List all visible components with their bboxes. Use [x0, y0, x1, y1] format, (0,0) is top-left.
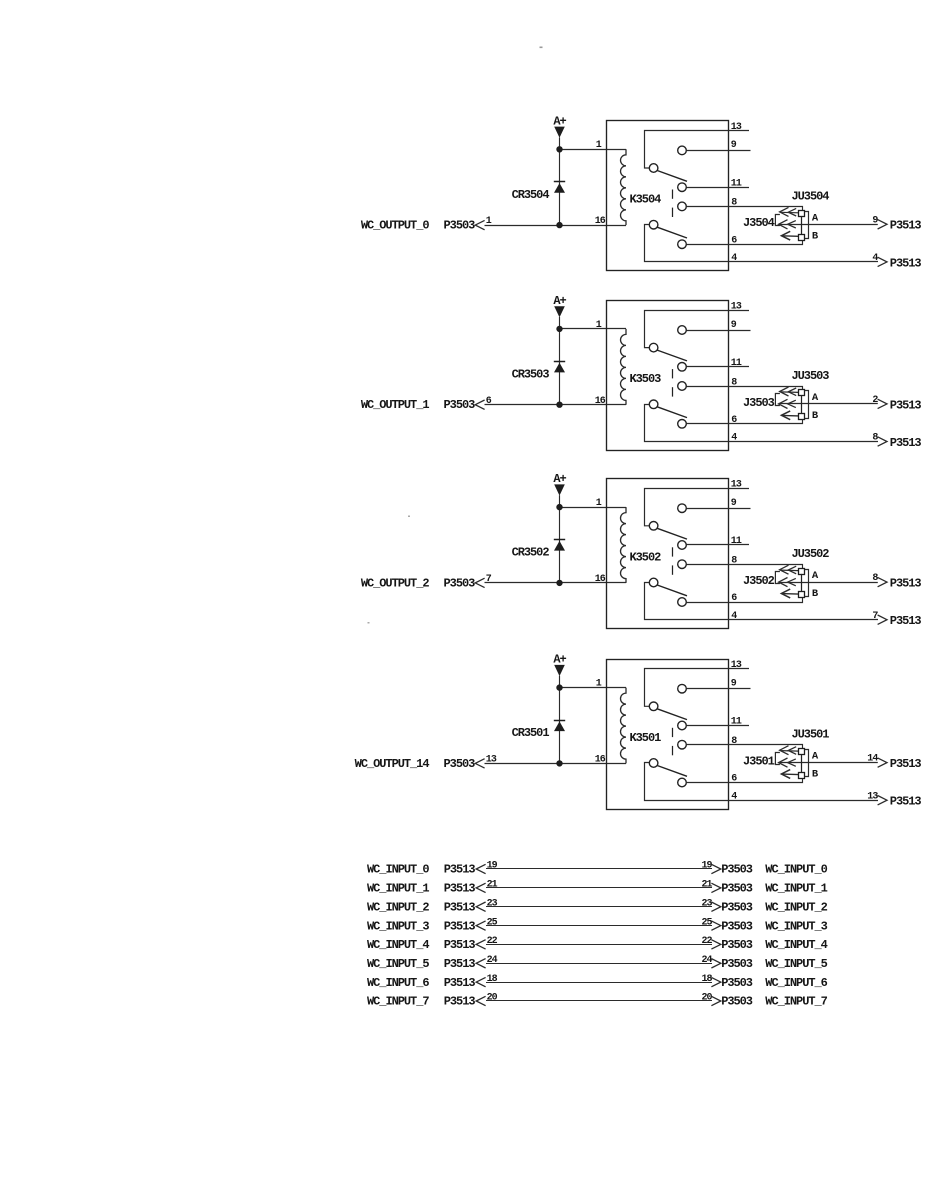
connector arrow P3503 pin 1 — [475, 220, 484, 229]
power arrow A+ — [554, 127, 565, 138]
connector J3504 bracket — [775, 215, 780, 226]
svg-text:A: A — [812, 570, 819, 582]
svg-text:K3501: K3501 — [630, 731, 662, 745]
svg-text:K3502: K3502 — [630, 550, 662, 564]
wire WC_OUTPUT_1 to coil pin 16 — [485, 404, 627, 406]
connector arrow P3513 pin 14 — [878, 758, 887, 767]
contact pin 6 — [678, 420, 687, 429]
wire contact pin 4 bracket — [645, 763, 879, 801]
wire A+ vertical — [559, 676, 561, 764]
connector arrow P3513 pin 7 — [878, 615, 887, 624]
contact pin 8 — [678, 740, 687, 749]
svg-text:P3513: P3513 — [890, 577, 922, 591]
svg-text:B: B — [812, 230, 819, 242]
wire pin 6 to jumper B — [686, 240, 802, 245]
svg-text:P3503: P3503 — [721, 976, 753, 990]
svg-text:WC_OUTPUT_0: WC_OUTPUT_0 — [361, 219, 430, 233]
svg-text:24: 24 — [701, 955, 712, 966]
svg-text:J3504: J3504 — [743, 216, 775, 230]
diode CR3503 — [554, 361, 565, 363]
svg-text:JU3501: JU3501 — [792, 728, 830, 742]
junction A+ / pin 1 — [557, 326, 562, 331]
wire A+ vertical — [559, 317, 561, 405]
svg-text:9: 9 — [731, 320, 737, 331]
diode CR3501 — [554, 720, 565, 722]
wire A+ vertical — [559, 137, 561, 225]
relay K3501 box — [607, 660, 729, 810]
wire WC_INPUT_2 — [486, 906, 712, 908]
connector arrow P3503 pin 6 — [475, 400, 484, 409]
svg-text:22: 22 — [487, 936, 498, 947]
svg-text:9: 9 — [731, 498, 737, 509]
contact pin 8 — [678, 202, 687, 211]
svg-text:7: 7 — [486, 574, 492, 585]
svg-text:1: 1 — [596, 320, 602, 331]
diode CR3504 — [554, 181, 565, 183]
contact pin 8 — [678, 560, 687, 569]
wire WC_INPUT_1 — [486, 887, 712, 889]
svg-text:13: 13 — [867, 791, 878, 802]
relay K3503 coil — [621, 329, 627, 405]
wire coil pin 1 (A+ node to K3504) — [560, 149, 627, 151]
svg-text:CR3502: CR3502 — [512, 546, 550, 560]
svg-text:JU3504: JU3504 — [792, 189, 830, 203]
svg-text:21: 21 — [487, 880, 498, 891]
speck — [368, 622, 370, 624]
svg-text:9: 9 — [731, 679, 737, 690]
svg-text:P3513: P3513 — [890, 614, 922, 628]
svg-text:25: 25 — [701, 917, 712, 928]
connector arrow P3513 pin 23 — [476, 902, 485, 911]
svg-text:P3503: P3503 — [721, 882, 753, 896]
wire WC_OUTPUT_2 to coil pin 16 — [485, 582, 627, 584]
svg-text:P3513: P3513 — [444, 863, 476, 877]
svg-text:A+: A+ — [553, 114, 566, 128]
switch arm pole 1 — [657, 171, 687, 182]
svg-text:P3503: P3503 — [444, 398, 476, 412]
jumper shunt A-B — [805, 750, 809, 777]
svg-text:2: 2 — [872, 395, 878, 406]
svg-text:P3503: P3503 — [721, 919, 753, 933]
svg-text:WC_INPUT_7: WC_INPUT_7 — [765, 995, 827, 1009]
contact pin 9 (NC) — [678, 146, 687, 155]
contact pin 8 — [678, 382, 687, 391]
svg-text:6: 6 — [486, 396, 492, 407]
svg-text:WC_INPUT_1: WC_INPUT_1 — [367, 882, 429, 896]
connector arrow P3503 pin 21 — [711, 883, 720, 892]
svg-text:A+: A+ — [553, 653, 566, 667]
wire WC_INPUT_0 — [486, 868, 712, 870]
svg-text:P3513: P3513 — [890, 398, 922, 412]
svg-text:16: 16 — [595, 396, 606, 407]
power arrow A+ — [554, 306, 565, 317]
svg-text:P3503: P3503 — [721, 957, 753, 971]
connector arrow P3503 pin 18 — [711, 977, 720, 986]
svg-text:16: 16 — [595, 755, 606, 766]
svg-text:13: 13 — [731, 480, 742, 491]
svg-text:A: A — [812, 212, 819, 224]
wire contact pin 13 bracket — [645, 131, 750, 169]
svg-text:25: 25 — [487, 917, 498, 928]
wire contact pin 13 bracket — [645, 489, 750, 526]
svg-text:9: 9 — [731, 140, 737, 151]
relay K3504 box — [607, 121, 729, 271]
connector arrow P3513 pin 18 — [476, 977, 485, 986]
svg-text:18: 18 — [487, 974, 498, 985]
junction A+ / pin 1 — [557, 147, 562, 152]
mechanical link — [672, 547, 674, 556]
speck — [540, 47, 543, 49]
relay K3503 box — [607, 301, 729, 451]
svg-text:P3513: P3513 — [444, 919, 476, 933]
contact pin 9 (NC) — [678, 504, 687, 513]
connector arrow P3513 pin 19 — [476, 864, 485, 873]
junction diode / pin 16 — [557, 402, 562, 407]
svg-text:24: 24 — [487, 955, 498, 966]
switch arm pole 2 — [657, 585, 687, 596]
svg-text:22: 22 — [701, 936, 712, 947]
svg-text:WC_INPUT_3: WC_INPUT_3 — [367, 919, 429, 933]
connector arrow P3503 pin 25 — [711, 921, 720, 930]
svg-text:4: 4 — [872, 253, 878, 264]
wire coil pin 1 (A+ node to K3501) — [560, 687, 627, 689]
svg-text:P3503: P3503 — [444, 219, 476, 233]
svg-text:19: 19 — [487, 861, 498, 872]
svg-text:16: 16 — [595, 216, 606, 227]
svg-text:13: 13 — [731, 122, 742, 133]
contact pivot (pole 1) — [649, 164, 658, 173]
wire contact pin 4 bracket — [645, 405, 879, 442]
diode CR3502 — [554, 539, 565, 541]
svg-text:WC_OUTPUT_2: WC_OUTPUT_2 — [361, 576, 430, 590]
svg-text:A+: A+ — [553, 294, 566, 308]
svg-text:WC_INPUT_5: WC_INPUT_5 — [367, 957, 429, 971]
junction diode / pin 16 — [557, 761, 562, 766]
wire pin 8 to jumper A — [686, 387, 802, 390]
svg-text:23: 23 — [487, 898, 498, 909]
svg-text:7: 7 — [872, 611, 878, 622]
svg-text:WC_INPUT_3: WC_INPUT_3 — [765, 919, 827, 933]
connector arrow P3503 pin 13 — [475, 759, 484, 768]
switch arm pole 2 — [657, 766, 687, 777]
contact pin 11 (NO) — [678, 183, 687, 192]
svg-text:13: 13 — [731, 660, 742, 671]
svg-text:11: 11 — [731, 536, 742, 547]
wire pin 8 to jumper A — [686, 745, 802, 749]
svg-text:21: 21 — [701, 880, 712, 891]
contact pin 6 — [678, 240, 687, 249]
svg-text:P3503: P3503 — [721, 900, 753, 914]
wire pin 11 — [686, 725, 749, 727]
speck — [408, 516, 410, 518]
wire WC_INPUT_7 — [486, 1000, 712, 1002]
wire WC_OUTPUT_0 to coil pin 16 — [485, 225, 627, 227]
junction diode / pin 16 — [557, 580, 562, 585]
wire A+ vertical — [559, 495, 561, 583]
connector J3503 bracket — [775, 394, 780, 406]
mechanical link — [672, 369, 674, 378]
power arrow A+ — [554, 484, 565, 495]
connector arrow P3503 pin 20 — [711, 996, 720, 1005]
wire pin 9 — [686, 330, 750, 332]
contact pin 11 (NO) — [678, 721, 687, 730]
svg-text:K3503: K3503 — [630, 372, 662, 386]
svg-text:P3503: P3503 — [444, 757, 476, 771]
svg-text:WC_INPUT_7: WC_INPUT_7 — [367, 995, 429, 1009]
connector arrow P3503 pin 23 — [711, 902, 720, 911]
connector arrow P3513 pin 8 — [878, 437, 887, 446]
switch arm pole 1 — [657, 528, 687, 539]
jumper JU3503 post B — [799, 414, 805, 420]
svg-text:WC_INPUT_2: WC_INPUT_2 — [765, 900, 827, 914]
svg-text:P3503: P3503 — [721, 938, 753, 952]
jumper shunt A-B — [805, 212, 809, 239]
svg-text:P3513: P3513 — [890, 757, 922, 771]
svg-text:WC_INPUT_6: WC_INPUT_6 — [765, 976, 827, 990]
wire WC_INPUT_4 — [486, 944, 712, 946]
wire jumper to P3513 pin 14 — [802, 762, 878, 764]
svg-text:P3513: P3513 — [444, 900, 476, 914]
connector arrow P3503 pin 22 — [711, 940, 720, 949]
svg-text:P3513: P3513 — [890, 795, 922, 809]
power arrow A+ — [554, 665, 565, 676]
svg-text:16: 16 — [595, 574, 606, 585]
connector arrow P3503 pin 19 — [711, 864, 720, 873]
wire WC_INPUT_5 — [486, 963, 712, 965]
svg-text:B: B — [812, 769, 819, 781]
switch arm pole 2 — [657, 227, 687, 238]
contact pivot (pole 1) — [649, 702, 658, 711]
svg-text:WC_INPUT_1: WC_INPUT_1 — [765, 882, 827, 896]
svg-text:20: 20 — [487, 993, 498, 1004]
svg-text:P3513: P3513 — [890, 256, 922, 270]
svg-text:WC_INPUT_0: WC_INPUT_0 — [367, 863, 429, 877]
connector J3502 bracket — [775, 572, 780, 584]
svg-text:P3503: P3503 — [444, 576, 476, 590]
connector arrow P3513 pin 25 — [476, 921, 485, 930]
connector J3503 pin arrows — [780, 387, 789, 396]
svg-text:JU3502: JU3502 — [792, 547, 830, 561]
contact pin 9 (NC) — [678, 684, 687, 693]
wire contact pin 4 bracket — [645, 583, 879, 620]
wire pin 8 to jumper A — [686, 565, 802, 569]
connector arrow P3513 pin 20 — [476, 996, 485, 1005]
svg-text:B: B — [812, 410, 819, 422]
wire pin 9 — [686, 150, 750, 152]
svg-text:P3513: P3513 — [444, 995, 476, 1009]
svg-text:J3503: J3503 — [743, 396, 775, 410]
svg-text:WC_INPUT_4: WC_INPUT_4 — [765, 938, 827, 952]
jumper spine — [801, 396, 803, 414]
contact pin 9 (NC) — [678, 326, 687, 335]
connector arrow P3503 pin 24 — [711, 959, 720, 968]
svg-text:P3513: P3513 — [444, 882, 476, 896]
svg-text:11: 11 — [731, 717, 742, 728]
svg-text:8: 8 — [731, 736, 737, 747]
wire jumper to P3513 pin 2 — [802, 403, 878, 405]
wire pin 11 — [686, 187, 749, 189]
svg-text:CR3503: CR3503 — [512, 367, 550, 381]
svg-text:A+: A+ — [553, 472, 566, 486]
switch arm pole 2 — [657, 407, 687, 418]
svg-text:A: A — [812, 392, 819, 404]
wire jumper to P3513 pin 9 — [802, 224, 878, 226]
jumper JU3503 post A — [799, 390, 805, 396]
svg-text:13: 13 — [731, 302, 742, 313]
jumper JU3501 post A — [799, 749, 805, 755]
jumper JU3504 post A — [799, 211, 805, 217]
svg-text:23: 23 — [701, 898, 712, 909]
svg-text:13: 13 — [486, 755, 497, 766]
svg-text:WC_INPUT_6: WC_INPUT_6 — [367, 976, 429, 990]
connector J3502 pin arrows — [780, 565, 789, 574]
wire coil pin 1 (A+ node to K3503) — [560, 328, 627, 330]
svg-text:J3501: J3501 — [743, 755, 775, 769]
wire pin 9 — [686, 688, 750, 690]
jumper JU3502 post B — [799, 592, 805, 598]
contact pivot (pole 2) — [649, 578, 658, 587]
svg-text:P3513: P3513 — [444, 938, 476, 952]
connector J3504 pin arrows — [780, 207, 789, 216]
mechanical link — [672, 728, 674, 737]
jumper shunt A-B — [805, 570, 809, 597]
wire contact pin 4 bracket — [645, 225, 879, 262]
connector arrow P3513 pin 22 — [476, 940, 485, 949]
jumper JU3504 post B — [799, 235, 805, 241]
svg-text:18: 18 — [701, 974, 712, 985]
svg-text:WC_INPUT_0: WC_INPUT_0 — [765, 863, 827, 877]
relay K3504 coil — [621, 149, 627, 225]
jumper spine — [801, 574, 803, 592]
svg-text:P3513: P3513 — [890, 219, 922, 233]
wire pin 11 — [686, 366, 749, 368]
jumper JU3501 post B — [799, 773, 805, 779]
contact pin 11 (NO) — [678, 541, 687, 550]
junction A+ / pin 1 — [557, 504, 562, 509]
wire contact pin 13 bracket — [645, 311, 750, 348]
relay K3501 coil — [621, 688, 627, 764]
wire pin 9 — [686, 508, 750, 510]
svg-text:JU3503: JU3503 — [792, 369, 830, 383]
wire pin 6 to jumper B — [686, 778, 802, 782]
connector arrow P3513 pin 21 — [476, 883, 485, 892]
connector arrow P3513 pin 8 — [878, 577, 887, 586]
switch arm pole 1 — [657, 350, 687, 361]
connector J3501 bracket — [775, 753, 780, 765]
svg-text:6: 6 — [731, 415, 737, 426]
svg-text:14: 14 — [867, 754, 878, 765]
junction diode / pin 16 — [557, 222, 562, 227]
svg-text:P3513: P3513 — [890, 436, 922, 450]
svg-text:A: A — [812, 751, 819, 763]
connector arrow P3513 pin 13 — [878, 796, 887, 805]
wire pin 6 to jumper B — [686, 420, 802, 424]
svg-text:20: 20 — [701, 993, 712, 1004]
connector arrow P3513 pin 24 — [476, 959, 485, 968]
wire pin 6 to jumper B — [686, 598, 802, 603]
svg-text:CR3501: CR3501 — [512, 726, 550, 740]
svg-text:WC_INPUT_2: WC_INPUT_2 — [367, 900, 429, 914]
wire jumper to P3513 pin 8 — [802, 582, 878, 584]
connector arrow P3513 pin 2 — [878, 399, 887, 408]
svg-text:4: 4 — [731, 253, 737, 264]
svg-text:11: 11 — [731, 358, 742, 369]
contact pivot (pole 1) — [649, 343, 658, 352]
svg-text:P3503: P3503 — [721, 995, 753, 1009]
jumper spine — [801, 754, 803, 772]
wire pin 8 to jumper A — [686, 207, 802, 211]
jumper JU3502 post A — [799, 569, 805, 575]
svg-text:P3513: P3513 — [444, 976, 476, 990]
svg-text:CR3504: CR3504 — [512, 188, 550, 202]
svg-text:4: 4 — [731, 611, 737, 622]
connector J3501 pin arrows — [780, 746, 789, 755]
connector arrow P3503 pin 7 — [475, 578, 484, 587]
relay K3502 box — [607, 479, 729, 629]
svg-text:WC_INPUT_4: WC_INPUT_4 — [367, 938, 429, 952]
jumper spine — [801, 216, 803, 234]
svg-text:P3513: P3513 — [444, 957, 476, 971]
svg-text:WC_OUTPUT_14: WC_OUTPUT_14 — [355, 757, 430, 771]
wire coil pin 1 (A+ node to K3502) — [560, 507, 627, 509]
contact pin 6 — [678, 598, 687, 607]
wire WC_INPUT_3 — [486, 925, 712, 927]
relay K3502 coil — [621, 507, 627, 583]
connector arrow P3513 pin 9 — [878, 220, 887, 229]
svg-text:K3504: K3504 — [630, 193, 662, 207]
connector arrow P3513 pin 4 — [878, 257, 887, 266]
svg-text:WC_OUTPUT_1: WC_OUTPUT_1 — [361, 398, 430, 412]
mechanical link — [672, 190, 674, 199]
svg-text:P3503: P3503 — [721, 863, 753, 877]
wire WC_INPUT_6 — [486, 982, 712, 984]
svg-text:J3502: J3502 — [743, 574, 775, 588]
wire pin 11 — [686, 544, 749, 546]
wire WC_OUTPUT_14 to coil pin 16 — [485, 763, 627, 765]
contact pin 6 — [678, 778, 687, 787]
svg-text:WC_INPUT_5: WC_INPUT_5 — [765, 957, 827, 971]
contact pivot (pole 1) — [649, 522, 658, 531]
junction A+ / pin 1 — [557, 685, 562, 690]
contact pivot (pole 2) — [649, 759, 658, 768]
svg-text:B: B — [812, 588, 819, 600]
svg-text:11: 11 — [731, 178, 742, 189]
jumper shunt A-B — [805, 391, 809, 419]
contact pivot (pole 2) — [649, 220, 658, 229]
contact pin 11 (NO) — [678, 363, 687, 372]
contact pivot (pole 2) — [649, 400, 658, 409]
switch arm pole 1 — [657, 709, 687, 720]
svg-text:19: 19 — [701, 861, 712, 872]
wire contact pin 13 bracket — [645, 669, 750, 707]
